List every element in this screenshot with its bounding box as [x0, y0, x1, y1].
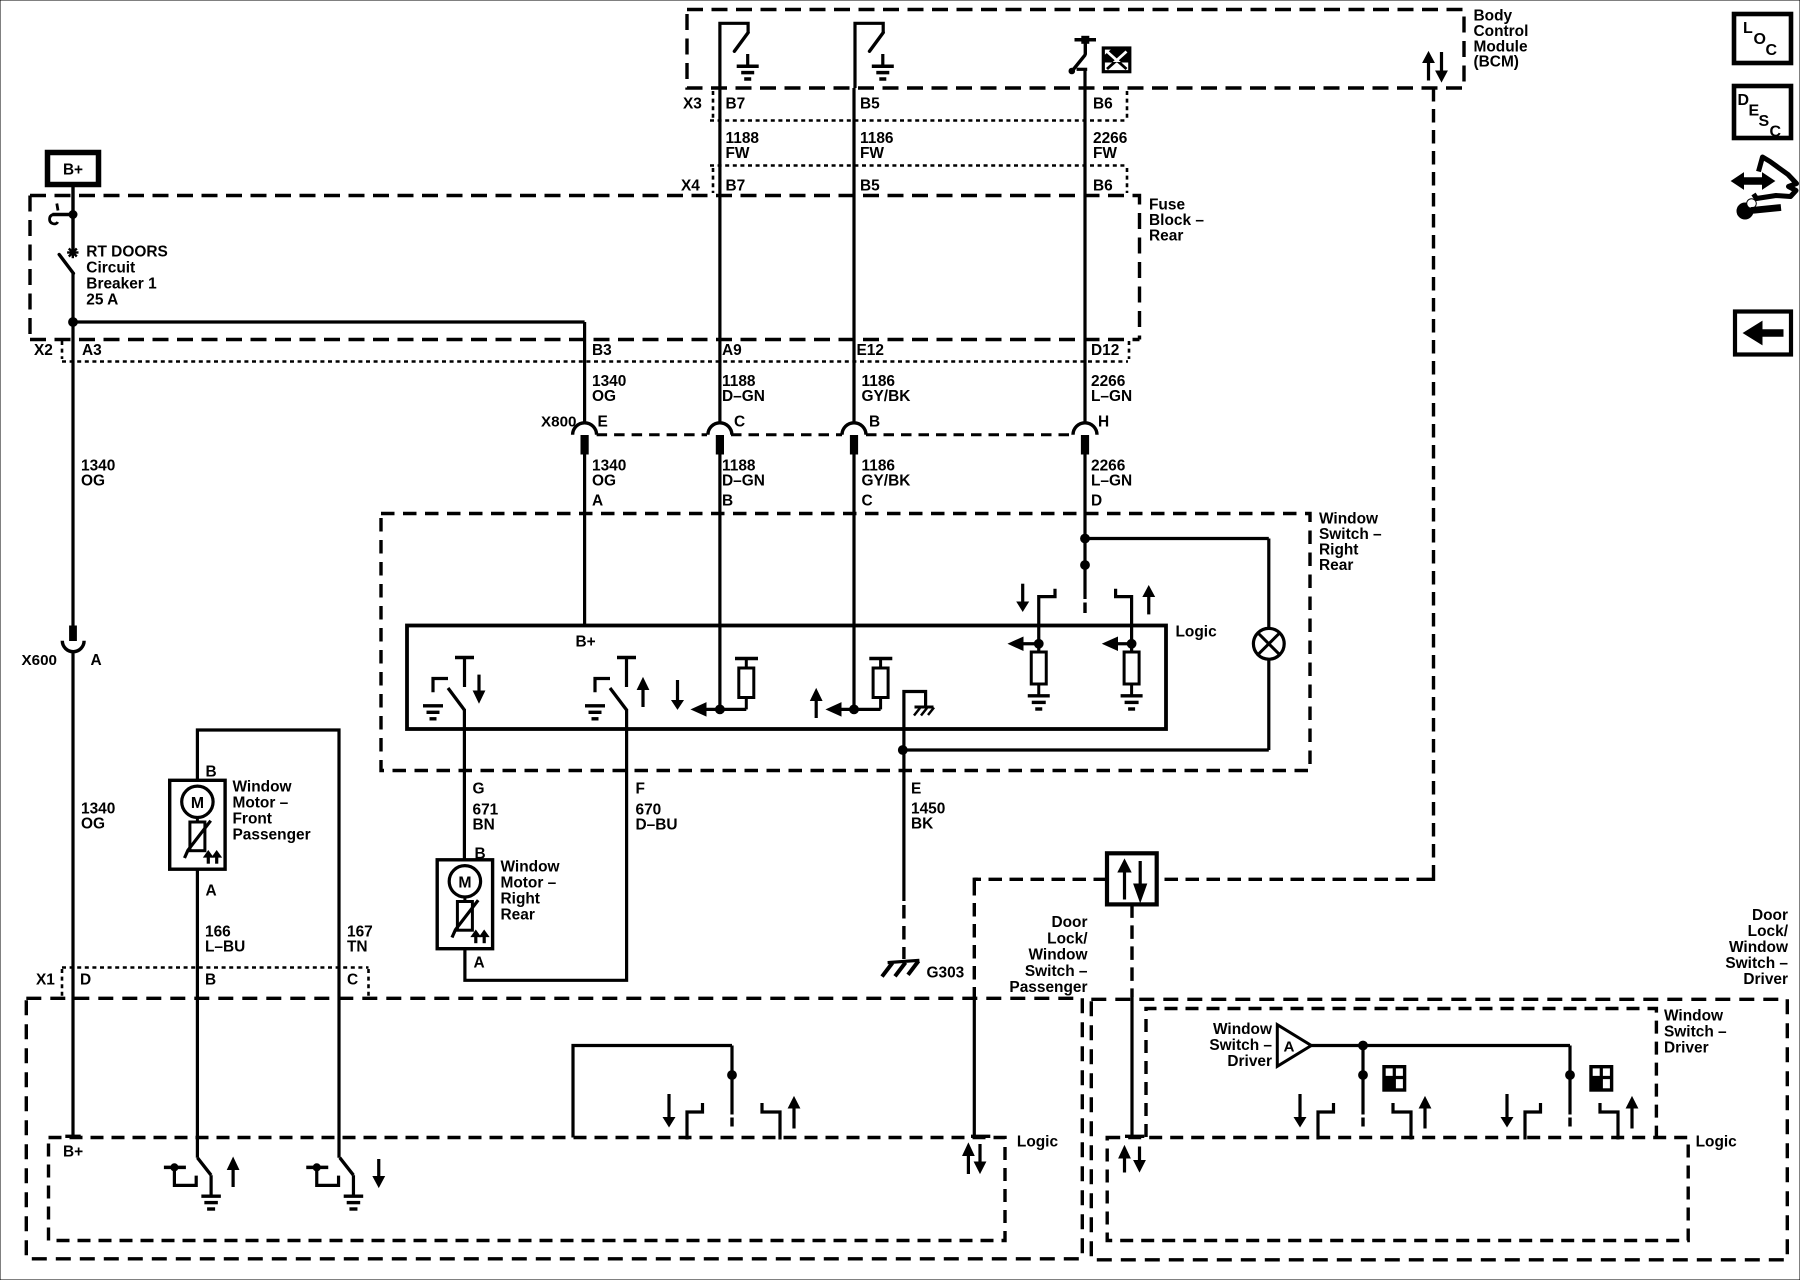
svg-text:Driver: Driver — [1227, 1053, 1272, 1070]
svg-text:A: A — [1284, 1039, 1295, 1056]
svg-text:Lock/: Lock/ — [1047, 930, 1088, 947]
back arrow button — [1735, 312, 1791, 355]
ground symbol under BCM switch B5 — [881, 54, 884, 66]
svg-text:B5: B5 — [860, 96, 880, 113]
svg-text:X4: X4 — [681, 178, 700, 195]
svg-text:Right: Right — [1319, 542, 1358, 559]
svg-text:B3: B3 — [592, 342, 612, 359]
window motor front passenger dual up arrows — [204, 851, 213, 857]
ground symbol (DOWN demand) — [1028, 694, 1050, 697]
svg-text:B: B — [206, 764, 217, 781]
window motor front passenger outline — [170, 780, 225, 869]
pull-up resistor (wire B) — [735, 657, 758, 661]
DOWN demand sense arrow — [1009, 637, 1023, 650]
Fuse Block - Rear dashed outline — [30, 196, 1140, 340]
DOWN demand resistor — [1031, 652, 1046, 684]
svg-text:X600: X600 — [22, 652, 57, 669]
wire 1186 GY/BK (B5/E12/B/C) — [852, 88, 855, 424]
driver window rocker DOWN arrow — [1505, 1094, 1508, 1119]
ground symbol (switch UP) — [585, 704, 605, 707]
wire 1340 OG (A3 branch) — [71, 322, 74, 626]
wire 1450 BK pin E to G303 — [902, 750, 905, 901]
svg-text:A9: A9 — [722, 342, 742, 359]
svg-text:D: D — [1091, 493, 1102, 510]
svg-text:Passenger: Passenger — [233, 827, 311, 844]
ground symbol under BCM switch B7 — [746, 54, 749, 66]
X800 terminal H — [1073, 423, 1097, 435]
driver window rocker UP arrow — [1626, 1097, 1637, 1108]
UP sense arrow — [811, 689, 822, 701]
front passenger window (driver console) rocker UP contact — [1393, 1103, 1411, 1140]
svg-text:D: D — [1738, 92, 1750, 109]
BCM internal window-function switch (pin B6) — [1075, 38, 1097, 42]
indicator lamp feed wire — [1267, 539, 1270, 629]
svg-text:FW: FW — [1093, 145, 1117, 162]
X800 terminal E — [573, 423, 597, 435]
wire 167 TN — [337, 998, 340, 1158]
front passenger window (driver console) rocker DOWN contact — [1318, 1103, 1334, 1140]
DOWN demand arrow — [1021, 584, 1024, 603]
svg-text:Switch –: Switch – — [1319, 526, 1382, 543]
front passenger window (driver console) rocker switch common pole and blade — [1361, 1046, 1364, 1115]
passenger window DOWN switch blade — [340, 1158, 354, 1176]
svg-text:OG: OG — [81, 816, 105, 833]
svg-text:BN: BN — [473, 817, 495, 834]
svg-text:B: B — [869, 414, 880, 431]
chassis ground stub (pin E return) — [904, 692, 926, 751]
svg-text:C: C — [862, 493, 873, 510]
wire 166 L-BU motor A to passenger switch — [196, 869, 199, 1157]
Door Lock/Window Switch - Passenger dashed outline — [26, 998, 1082, 1259]
pull-up resistor (wire C) — [869, 657, 892, 661]
serial data arrows driver logic — [1119, 1146, 1130, 1158]
svg-text:Window: Window — [501, 859, 561, 876]
driver switch feed wire — [1311, 1044, 1570, 1047]
wire 671 BN pin G to right rear motor — [463, 709, 466, 860]
wire 1340 OG (B3/E/A) — [583, 454, 586, 627]
svg-text:L–GN: L–GN — [1091, 473, 1132, 490]
svg-text:Driver: Driver — [1743, 971, 1788, 988]
svg-text:B+: B+ — [63, 162, 83, 179]
serial data wire into passenger switch — [973, 997, 976, 1138]
switch UP ground contact — [595, 679, 610, 693]
switch UP blade — [610, 688, 627, 710]
svg-text:BK: BK — [911, 816, 933, 833]
wire D junction to lamp feed — [1081, 534, 1090, 543]
UP demand arrow — [1143, 586, 1154, 597]
window motor right rear thermal element — [463, 897, 466, 902]
svg-text:G: G — [473, 781, 485, 798]
svg-text:C: C — [347, 972, 358, 989]
passenger window DOWN DOWN arrow — [377, 1159, 380, 1178]
svg-text:Rear: Rear — [1149, 228, 1183, 245]
svg-text:H: H — [1098, 414, 1109, 431]
svg-text:Switch –: Switch – — [1209, 1037, 1272, 1054]
switch DOWN ground contact — [433, 679, 448, 693]
svg-text:Door: Door — [1752, 907, 1788, 924]
indicator lamp — [1253, 628, 1284, 659]
svg-text:Logic: Logic — [1017, 1134, 1059, 1151]
svg-text:S: S — [1759, 113, 1770, 130]
svg-text:D12: D12 — [1091, 342, 1119, 359]
Window Switch - Right Rear logic box — [407, 626, 1166, 730]
indicator lamp return wire — [1267, 659, 1270, 750]
UP arrow — [637, 678, 648, 690]
BCM internal switch to ground (pin B7) — [720, 23, 748, 88]
svg-text:GY/BK: GY/BK — [862, 473, 911, 490]
passenger window UP fixed contact with feed stub — [164, 1166, 186, 1170]
front passenger window bridge wire — [197, 730, 339, 998]
ground symbol under passenger window DOWN switch — [344, 1194, 364, 1197]
junction breaker output — [69, 318, 78, 327]
ground symbol (switch DOWN) — [423, 704, 443, 707]
svg-text:C: C — [1770, 124, 1782, 141]
driver window rocker UP contact — [1600, 1103, 1618, 1140]
passenger local rocker UP arrow — [788, 1097, 799, 1108]
switch DOWN (to pin G) feed stub — [455, 656, 474, 660]
svg-text:D–GN: D–GN — [722, 473, 765, 490]
Window Switch - Driver dashed box — [1146, 1009, 1656, 1138]
svg-text:L–GN: L–GN — [1091, 388, 1132, 405]
RT DOORS Circuit Breaker 1 25 A — [53, 213, 74, 217]
svg-text:Circuit: Circuit — [86, 260, 135, 277]
passenger window UP UP arrow — [228, 1158, 239, 1170]
svg-text:Window: Window — [1664, 1008, 1724, 1025]
svg-text:B+: B+ — [63, 1144, 83, 1161]
feed wire to window switch (B3) — [73, 320, 585, 323]
Door Lock/Window Switch - Driver dashed outline — [1091, 999, 1787, 1260]
svg-text:Lock/: Lock/ — [1748, 923, 1789, 940]
svg-text:OG: OG — [592, 388, 616, 405]
svg-text:25 A: 25 A — [86, 292, 118, 309]
UP sense line into wire C — [827, 703, 841, 716]
switch DOWN blade — [448, 688, 464, 710]
wire 1188 D-GN (B7/A9/C/B) — [718, 88, 721, 424]
front passenger window (driver console) rocker UP arrow — [1419, 1097, 1430, 1108]
passenger local rocker DOWN arrow — [667, 1094, 670, 1119]
svg-text:X2: X2 — [34, 342, 53, 359]
svg-text:RT DOORS: RT DOORS — [86, 244, 167, 261]
svg-text:OG: OG — [592, 473, 616, 490]
driver window rocker DOWN contact — [1525, 1103, 1541, 1140]
svg-text:Driver: Driver — [1664, 1040, 1709, 1057]
UP demand switch contact — [1116, 589, 1132, 624]
BCM internal switch to ground (pin B5) — [855, 23, 883, 88]
serial data up/down arrows box — [1107, 853, 1157, 904]
inline connector X600 terminal A — [70, 626, 77, 641]
svg-text:Passenger: Passenger — [1009, 979, 1087, 996]
svg-text:X800: X800 — [541, 414, 576, 431]
svg-text:A: A — [206, 883, 217, 900]
svg-text:Switch –: Switch – — [1664, 1024, 1727, 1041]
svg-text:Fuse: Fuse — [1149, 197, 1185, 214]
svg-text:E: E — [911, 781, 921, 798]
serial data branch to driver switch — [1130, 904, 1133, 997]
UP demand resistor — [1124, 652, 1139, 684]
svg-text:B7: B7 — [726, 178, 746, 195]
BCM serial data up/down arrows — [1423, 52, 1434, 63]
svg-text:Window: Window — [1319, 511, 1379, 528]
component view icon (car with arrow and wrench) — [1741, 177, 1765, 185]
wire 1340 OG to passenger door — [71, 653, 74, 1138]
svg-text:X1: X1 — [36, 972, 55, 989]
passenger switch logic dashed box — [49, 1138, 1006, 1241]
wire D switch blade — [1083, 603, 1086, 614]
B+ battery positive voltage box — [48, 153, 99, 185]
svg-text:Window: Window — [1213, 1021, 1273, 1038]
svg-text:Right: Right — [501, 891, 540, 908]
svg-text:Front: Front — [233, 811, 272, 828]
Body Control Module (BCM) dashed outline — [687, 10, 1464, 89]
svg-text:Rear: Rear — [1319, 557, 1353, 574]
passenger local rocker UP contact — [762, 1103, 780, 1140]
wire breaker to junction — [71, 272, 74, 322]
window motor front passenger thermal element — [196, 817, 199, 822]
connector X1 row — [62, 966, 369, 969]
connector X2 row — [30, 338, 1140, 341]
driver illuminated window icon — [1591, 1067, 1612, 1090]
wire D terminal into passenger logic — [65, 1135, 80, 1138]
wire right rear motor return loop to pin F — [465, 709, 627, 980]
svg-text:E12: E12 — [857, 342, 884, 359]
svg-text:Window: Window — [1729, 939, 1789, 956]
window motor right rear outline — [437, 860, 492, 949]
X800 terminal B — [842, 423, 866, 435]
ground G303 — [888, 960, 920, 962]
driver switch logic dashed box — [1107, 1138, 1688, 1241]
passenger window DOWN fixed contact with feed stub — [306, 1166, 328, 1170]
window motor front passenger M circle — [182, 786, 213, 817]
DOWN arrow — [477, 675, 480, 692]
svg-text:Door: Door — [1051, 914, 1087, 931]
passenger local rocker DOWN contact — [687, 1103, 703, 1140]
passenger local rocker switch common pole and blade — [730, 1046, 733, 1115]
svg-text:Logic: Logic — [1696, 1134, 1738, 1151]
svg-text:GY/BK: GY/BK — [862, 388, 911, 405]
svg-text:A: A — [474, 955, 485, 972]
svg-text:M: M — [458, 874, 471, 891]
svg-text:B6: B6 — [1093, 96, 1113, 113]
front passenger illuminated window icon — [1384, 1067, 1405, 1090]
svg-text:Motor –: Motor – — [501, 875, 557, 892]
svg-text:C: C — [1766, 42, 1778, 59]
svg-text:Switch –: Switch – — [1725, 955, 1788, 972]
serial data arrows passenger logic — [963, 1144, 974, 1156]
svg-text:Block –: Block – — [1149, 212, 1204, 229]
svg-text:Breaker 1: Breaker 1 — [86, 276, 157, 293]
Window Switch - Right Rear dashed outline — [381, 514, 1310, 771]
svg-text:A: A — [592, 493, 603, 510]
wire B+ box to breaker — [71, 185, 74, 250]
svg-text:F: F — [636, 781, 645, 798]
svg-text:C: C — [734, 414, 745, 431]
DOWN sense line into wire B — [692, 703, 706, 716]
svg-text:Window: Window — [1028, 947, 1088, 964]
passenger window UP switch blade — [197, 1158, 211, 1176]
svg-text:(BCM): (BCM) — [1474, 54, 1519, 71]
serial data line BCM to door switches — [1432, 88, 1435, 872]
svg-text:Switch –: Switch – — [1025, 963, 1088, 980]
svg-text:L–BU: L–BU — [205, 939, 245, 956]
DOWN sense arrow — [676, 680, 679, 702]
svg-text:Rear: Rear — [501, 907, 535, 924]
svg-text:FW: FW — [860, 145, 884, 162]
svg-text:D–GN: D–GN — [722, 388, 765, 405]
svg-text:B: B — [722, 493, 733, 510]
ground symbol (UP demand) — [1121, 694, 1143, 697]
switch UP (to pin F) feed stub — [617, 656, 636, 660]
svg-text:A3: A3 — [82, 342, 102, 359]
window motor right rear M circle — [449, 866, 480, 897]
svg-text:OG: OG — [81, 473, 105, 490]
svg-text:D: D — [80, 972, 91, 989]
DOWN demand switch contact — [1039, 589, 1055, 624]
svg-text:Motor –: Motor – — [233, 795, 289, 812]
svg-text:M: M — [191, 795, 204, 812]
DESC button — [1734, 86, 1791, 138]
svg-text:D–BU: D–BU — [636, 817, 678, 834]
svg-text:L: L — [1743, 20, 1753, 37]
ground symbol under passenger window UP switch — [201, 1194, 221, 1197]
window motor right rear dual up arrows — [471, 930, 480, 936]
buffer amplifier A — [1277, 1025, 1311, 1067]
LOC button — [1734, 14, 1791, 63]
X800 terminal C — [708, 423, 732, 435]
passenger local window switch feed — [573, 1046, 732, 1138]
driver window rocker switch common pole and blade — [1568, 1046, 1571, 1115]
svg-text:Logic: Logic — [1176, 624, 1218, 641]
svg-text:B: B — [205, 972, 216, 989]
svg-text:B6: B6 — [1093, 178, 1113, 195]
front passenger window (driver console) rocker DOWN arrow — [1298, 1094, 1301, 1119]
svg-text:Window: Window — [233, 779, 293, 796]
svg-text:B5: B5 — [860, 178, 880, 195]
UP demand sense arrow — [1103, 637, 1118, 650]
svg-text:O: O — [1754, 31, 1766, 48]
svg-text:FW: FW — [726, 145, 750, 162]
svg-text:TN: TN — [347, 939, 368, 956]
svg-text:B+: B+ — [576, 634, 596, 651]
wire 2266 L-GN (B6/D12/H/D) — [1083, 88, 1086, 424]
svg-text:E: E — [598, 414, 608, 431]
svg-text:B7: B7 — [726, 96, 746, 113]
svg-text:G303: G303 — [927, 965, 965, 982]
svg-text:A: A — [91, 652, 102, 669]
svg-text:X3: X3 — [683, 96, 702, 113]
